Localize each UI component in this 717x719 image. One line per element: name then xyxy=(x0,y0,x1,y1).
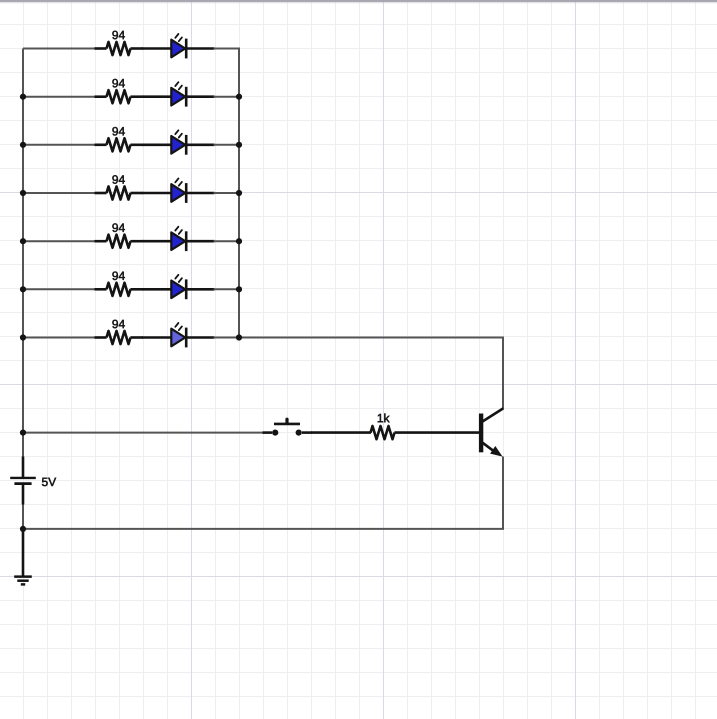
wire: row 6 resistor to LED (black lead) xyxy=(142,288,172,291)
wire: switch to resistor R8 (black) xyxy=(311,431,371,434)
ground symbol xyxy=(14,529,32,585)
junction: right rail row 3 xyxy=(236,142,242,148)
junction: left rail row 3 xyxy=(20,142,26,148)
wire: row 7 resistor to LED (black lead) xyxy=(142,336,172,339)
wire: row 7 from left rail to resistor xyxy=(23,337,96,339)
wire: row 3 from left rail to resistor xyxy=(23,144,96,146)
resistor R1 value 94 xyxy=(95,31,144,55)
junction: left rail row 5 xyxy=(20,238,26,244)
junction: left rail row 2 xyxy=(20,94,26,100)
wire: row 5 resistor to LED (black lead) xyxy=(142,240,172,243)
junction: right rail row 4 xyxy=(236,190,242,196)
wire: row 5 from left rail to resistor xyxy=(23,240,96,242)
wire: row 3 resistor to LED (black lead) xyxy=(142,144,172,147)
LED D6 (blue) xyxy=(171,275,214,299)
wire: row 5 LED to right rail xyxy=(214,240,241,242)
wire: row 6 from left rail to resistor xyxy=(23,288,96,290)
resistor R3 value 94 xyxy=(95,127,144,151)
wire: bottom return wire (ground net) xyxy=(23,528,504,530)
transistor Q1 (NPN) xyxy=(479,408,503,456)
wire: right vertical rail joining LED cathodes xyxy=(238,49,240,338)
LED D7 (blue) xyxy=(171,323,214,347)
wire: row 4 resistor to LED (black lead) xyxy=(142,192,172,195)
wire: row 4 LED to right rail xyxy=(214,192,241,194)
junction: left rail row 4 xyxy=(20,190,26,196)
junction: right rail row 5 xyxy=(236,238,242,244)
wire: resistor R8 to transistor base (black) xyxy=(394,431,479,434)
junction: left rail at base wire xyxy=(20,430,26,436)
resistor R4 value 94 xyxy=(95,175,144,199)
junction: right rail row 2 xyxy=(236,94,242,100)
junction: right rail row 7 xyxy=(236,334,242,340)
wire: row 2 LED to right rail xyxy=(214,96,241,98)
junction: left rail at bottom wire xyxy=(20,526,26,532)
wire: row 7 LED to right rail xyxy=(214,337,241,339)
junction: left rail row 7 xyxy=(20,334,26,340)
LED D2 (blue) xyxy=(171,82,214,106)
wire: row 2 from left rail to resistor xyxy=(23,96,96,98)
wire: row 2 resistor to LED (black lead) xyxy=(142,95,172,98)
resistor R6 value 94 xyxy=(95,272,144,296)
battery V1 5V xyxy=(10,457,56,505)
LED D5 (blue) xyxy=(171,227,214,251)
wire: collector vertical drop xyxy=(502,337,504,410)
wire: emitter vertical down to bottom wire xyxy=(502,457,504,529)
wire: left rail below battery to bottom node xyxy=(22,485,24,529)
junction: right rail row 6 xyxy=(236,286,242,292)
wire: row 7 node to collector (horizontal run) xyxy=(239,337,504,339)
pushbutton switch SW1 xyxy=(263,419,313,436)
junction: left rail row 6 xyxy=(20,286,26,292)
LED D4 (blue) xyxy=(171,179,214,203)
wire: base wire from left rail to switch xyxy=(23,432,264,434)
resistor R8 value 1k xyxy=(371,414,395,440)
wire: row 4 from left rail to resistor xyxy=(23,192,96,194)
resistor R5 value 94 xyxy=(95,223,144,247)
wire: row 1 LED to right rail xyxy=(214,48,241,50)
wire: left vertical rail (node A / +5V rail) xyxy=(22,49,24,478)
resistor R2 value 94 xyxy=(95,79,144,103)
canvas top edge bar xyxy=(0,0,717,4)
wire: row 6 LED to right rail xyxy=(214,288,241,290)
wire: row 1 from left rail to resistor xyxy=(23,48,96,50)
LED D1 (blue) xyxy=(171,34,214,58)
resistor R7 value 94 xyxy=(95,320,144,344)
wire: row 3 LED to right rail xyxy=(214,144,241,146)
LED D3 (blue) xyxy=(171,130,214,154)
wire: row 1 resistor to LED (black lead) xyxy=(142,47,172,50)
